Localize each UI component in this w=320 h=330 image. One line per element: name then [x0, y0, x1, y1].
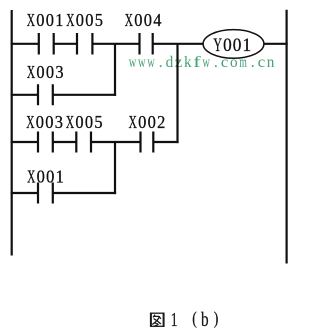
svg-text:X: X [26, 112, 34, 132]
svg-text:.: . [159, 52, 163, 71]
svg-text:X: X [129, 112, 137, 132]
wire rung1: coil to right rail [264, 43, 288, 45]
contact X001 rung1 bars [39, 33, 54, 55]
svg-text:c: c [258, 52, 266, 71]
right power rail [286, 10, 288, 264]
label X002 rung3 [129, 112, 166, 132]
wire rung3: X005 to X002 through node C [91, 141, 141, 143]
contact X003 rung2 bars [38, 84, 53, 105]
svg-text:1: 1 [55, 10, 63, 30]
contact X002 rung3 bars [141, 132, 154, 153]
svg-text:0: 0 [46, 62, 54, 82]
svg-text:w: w [147, 52, 155, 71]
svg-text:z: z [175, 52, 183, 71]
label coil text Y001 [213, 35, 251, 56]
svg-text:0: 0 [85, 112, 93, 132]
wire rung4: X001 to node C [53, 192, 116, 194]
svg-text:X: X [66, 10, 74, 30]
svg-text:1: 1 [243, 35, 252, 56]
caption figure glyph TU (drawn strokes) [150, 313, 164, 327]
svg-text:0: 0 [45, 112, 53, 132]
label X001 rung1 [27, 10, 64, 30]
svg-text:0: 0 [36, 112, 44, 132]
svg-text:0: 0 [138, 112, 146, 132]
svg-text:0: 0 [148, 112, 156, 132]
svg-text:0: 0 [134, 10, 142, 30]
svg-text:d: d [166, 52, 174, 71]
svg-text:3: 3 [55, 112, 63, 132]
svg-text:k: k [184, 52, 192, 71]
svg-text:5: 5 [94, 112, 102, 132]
svg-text:X: X [27, 62, 35, 82]
svg-text:0: 0 [76, 10, 84, 30]
wire rung1: rail to X001 [11, 43, 39, 45]
svg-text:0: 0 [144, 10, 152, 30]
label X003 rung3 [26, 112, 63, 132]
svg-text:(: ( [192, 308, 197, 329]
svg-text:n: n [267, 52, 275, 71]
label X001 rung4 [27, 167, 64, 187]
svg-text:0: 0 [36, 10, 44, 30]
wire rung2: X003 to node A [53, 94, 116, 96]
svg-text:0: 0 [37, 167, 45, 187]
svg-text:1: 1 [171, 309, 178, 330]
svg-text:w: w [202, 52, 210, 71]
wire rung4: rail to X001 [11, 192, 38, 194]
svg-text:X: X [125, 10, 133, 30]
svg-text:3: 3 [55, 62, 63, 82]
contact X003 rung3 bars [38, 132, 53, 153]
svg-text:0: 0 [36, 62, 44, 82]
svg-text:f: f [193, 52, 201, 71]
svg-text:X: X [66, 112, 74, 132]
wire rung2: rail to X003 [11, 94, 38, 96]
contact X004 rung1 bars [140, 33, 153, 55]
svg-text:0: 0 [85, 10, 93, 30]
left power rail [11, 10, 13, 256]
svg-text:Y: Y [213, 35, 222, 56]
wire rung1: X004 to coil through node B [153, 43, 204, 45]
svg-text:0: 0 [46, 167, 54, 187]
wire vertical node B [176, 44, 178, 143]
svg-text:w: w [129, 52, 137, 71]
wire vertical node C [114, 142, 116, 194]
svg-text:): ) [214, 308, 219, 329]
wire rung1: X005 to X004 through node A [92, 43, 139, 45]
contact X001 rung4 bars [38, 183, 53, 204]
svg-text:4: 4 [153, 10, 161, 30]
svg-text:0: 0 [223, 35, 232, 56]
wire rung3: X002 to node B [153, 141, 178, 143]
svg-text:0: 0 [46, 10, 54, 30]
wire rung3: X003 to X005 [53, 141, 77, 143]
wire vertical node A [114, 44, 116, 96]
svg-text:5: 5 [95, 10, 103, 30]
label X004 rung1 [125, 10, 162, 30]
wire rung3: rail to X003 [11, 141, 38, 143]
label X003 rung2 [27, 62, 64, 82]
svg-text:1: 1 [56, 167, 64, 187]
svg-text:0: 0 [233, 35, 242, 56]
wire rung1: X001 to X005 [54, 43, 77, 45]
contact X005 rung1 bars [77, 33, 92, 55]
label X005 rung3 [66, 112, 103, 132]
contact X005 rung3 bars [76, 132, 91, 153]
svg-text:0: 0 [75, 112, 83, 132]
svg-text:X: X [27, 10, 35, 30]
label X005 rung1 [66, 10, 103, 30]
svg-text:w: w [138, 52, 146, 71]
svg-text:b: b [201, 309, 209, 330]
svg-text:X: X [27, 167, 35, 187]
svg-text:2: 2 [157, 112, 165, 132]
watermark www.dzkfw.com.cn [129, 52, 275, 71]
coil Y001 oval [203, 30, 264, 59]
